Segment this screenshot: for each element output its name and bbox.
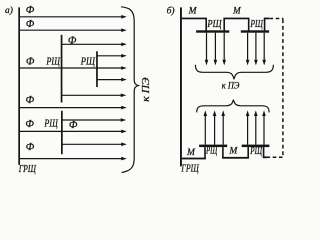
feeder F6 wire full width: [20, 130, 127, 134]
svg-text:ГРЩ: ГРЩ: [18, 163, 36, 175]
feeder wire from RShch1 lower: [62, 94, 127, 98]
busbar RShch bottom-right: [242, 145, 270, 148]
down arrow 1 from top-left busbar: [205, 33, 209, 66]
trunk M top segment 2: [223, 18, 249, 20]
feeder wire from RShch3: [62, 118, 126, 122]
svg-text:М: М: [188, 7, 198, 17]
up arrow 3 to bottom-left busbar: [221, 110, 225, 144]
main bus GRShch (diagram b): [180, 7, 182, 166]
trunk M bottom segment 2: [222, 157, 249, 159]
feeder wire from RShch2 lower: [97, 78, 127, 82]
leg from trunk to busbar RShch2 left: [248, 18, 250, 30]
feeder F7 bottom wire: [20, 157, 127, 161]
leg from bottom-right busbar to trunk left: [247, 147, 249, 158]
svg-text:ГРЩ: ГРЩ: [181, 162, 200, 174]
svg-text:РЩ: РЩ: [207, 19, 223, 30]
down arrow 3 from top-right busbar: [262, 33, 266, 66]
busbar RShch top-left: [196, 30, 229, 32]
leg from trunk to busbar RShch2 right: [264, 18, 266, 30]
svg-text:а): а): [5, 5, 13, 16]
svg-text:РЩ: РЩ: [205, 145, 217, 156]
svg-text:к ПЭ: к ПЭ: [222, 81, 240, 91]
svg-text:б): б): [167, 6, 175, 17]
bus RShch2 (nested, diagram a): [96, 51, 98, 87]
trunk M bottom dashed continuation: [267, 156, 284, 158]
trunk M top segment 3: [264, 18, 270, 20]
svg-text:Ф: Ф: [26, 57, 35, 68]
feeder F5 wire full width: [20, 106, 127, 110]
feeder F2 wire: [20, 28, 127, 32]
svg-text:Ф: Ф: [26, 19, 35, 30]
busbar RShch bottom-left: [199, 145, 227, 148]
feeder wire from RShch2: [97, 54, 127, 58]
up arrow 2 to bottom-left busbar: [213, 110, 217, 144]
feeder F4 wire full width: [20, 66, 127, 70]
down arrow 2 from top-left busbar: [214, 33, 218, 66]
svg-text:РЩ: РЩ: [250, 146, 263, 157]
feeder F1 wire: [20, 15, 127, 19]
leg from trunk to busbar RShch1 left: [205, 18, 207, 30]
leg from bottom-left busbar to trunk right: [222, 147, 224, 158]
feeder wire from RShch3 lower: [62, 143, 127, 147]
svg-text:РЩ: РЩ: [46, 55, 61, 67]
leg from bottom-right busbar to trunk right: [263, 147, 265, 158]
svg-text:М: М: [186, 148, 196, 158]
dashed riser (continuation) right: [282, 19, 284, 156]
bus RShch3 (lower, diagram a): [61, 111, 63, 154]
svg-text:Ф: Ф: [26, 95, 35, 106]
leg from trunk to busbar RShch1 right: [223, 18, 225, 30]
up arrow 3 to bottom-right busbar: [262, 110, 266, 144]
svg-text:Ф: Ф: [25, 119, 34, 130]
svg-text:РЩ: РЩ: [250, 19, 264, 30]
down arrow 2 from top-right busbar: [254, 33, 258, 66]
trunk M bottom segment 1: [182, 158, 206, 160]
svg-text:Ф: Ф: [69, 120, 78, 131]
svg-text:Ф: Ф: [26, 142, 35, 153]
trunk M top segment 1: [182, 18, 207, 20]
brace top (к ПЭ) diagram b: [195, 65, 273, 79]
svg-text:Ф: Ф: [68, 36, 77, 47]
main bus GRShch (diagram a): [18, 7, 20, 164]
busbar RShch top-right: [241, 30, 269, 32]
down arrow 1 from top-right busbar: [246, 33, 250, 66]
svg-text:РЩ: РЩ: [80, 55, 95, 67]
up arrow 2 to bottom-right busbar: [254, 110, 258, 144]
trunk M bottom segment 3: [263, 156, 267, 158]
leg from bottom-left busbar to trunk left: [204, 147, 206, 159]
up arrow 1 to bottom-left busbar: [204, 110, 208, 144]
brace to PE (diagram a): [121, 7, 138, 173]
up arrow 1 to bottom-right busbar: [246, 110, 250, 144]
brace bottom (к ПЭ) diagram b: [197, 100, 269, 113]
svg-text:к ПЭ: к ПЭ: [141, 77, 152, 102]
down arrow 3 from top-left busbar: [222, 33, 226, 66]
svg-text:РЩ: РЩ: [44, 117, 59, 129]
svg-text:М: М: [228, 147, 238, 157]
svg-text:Ф: Ф: [26, 5, 35, 16]
bus RShch1 (upper, diagram a): [61, 35, 63, 103]
trunk M top dashed continuation: [270, 17, 284, 19]
svg-text:М: М: [232, 6, 241, 16]
feeder F3 wire from RShch1: [62, 43, 127, 47]
